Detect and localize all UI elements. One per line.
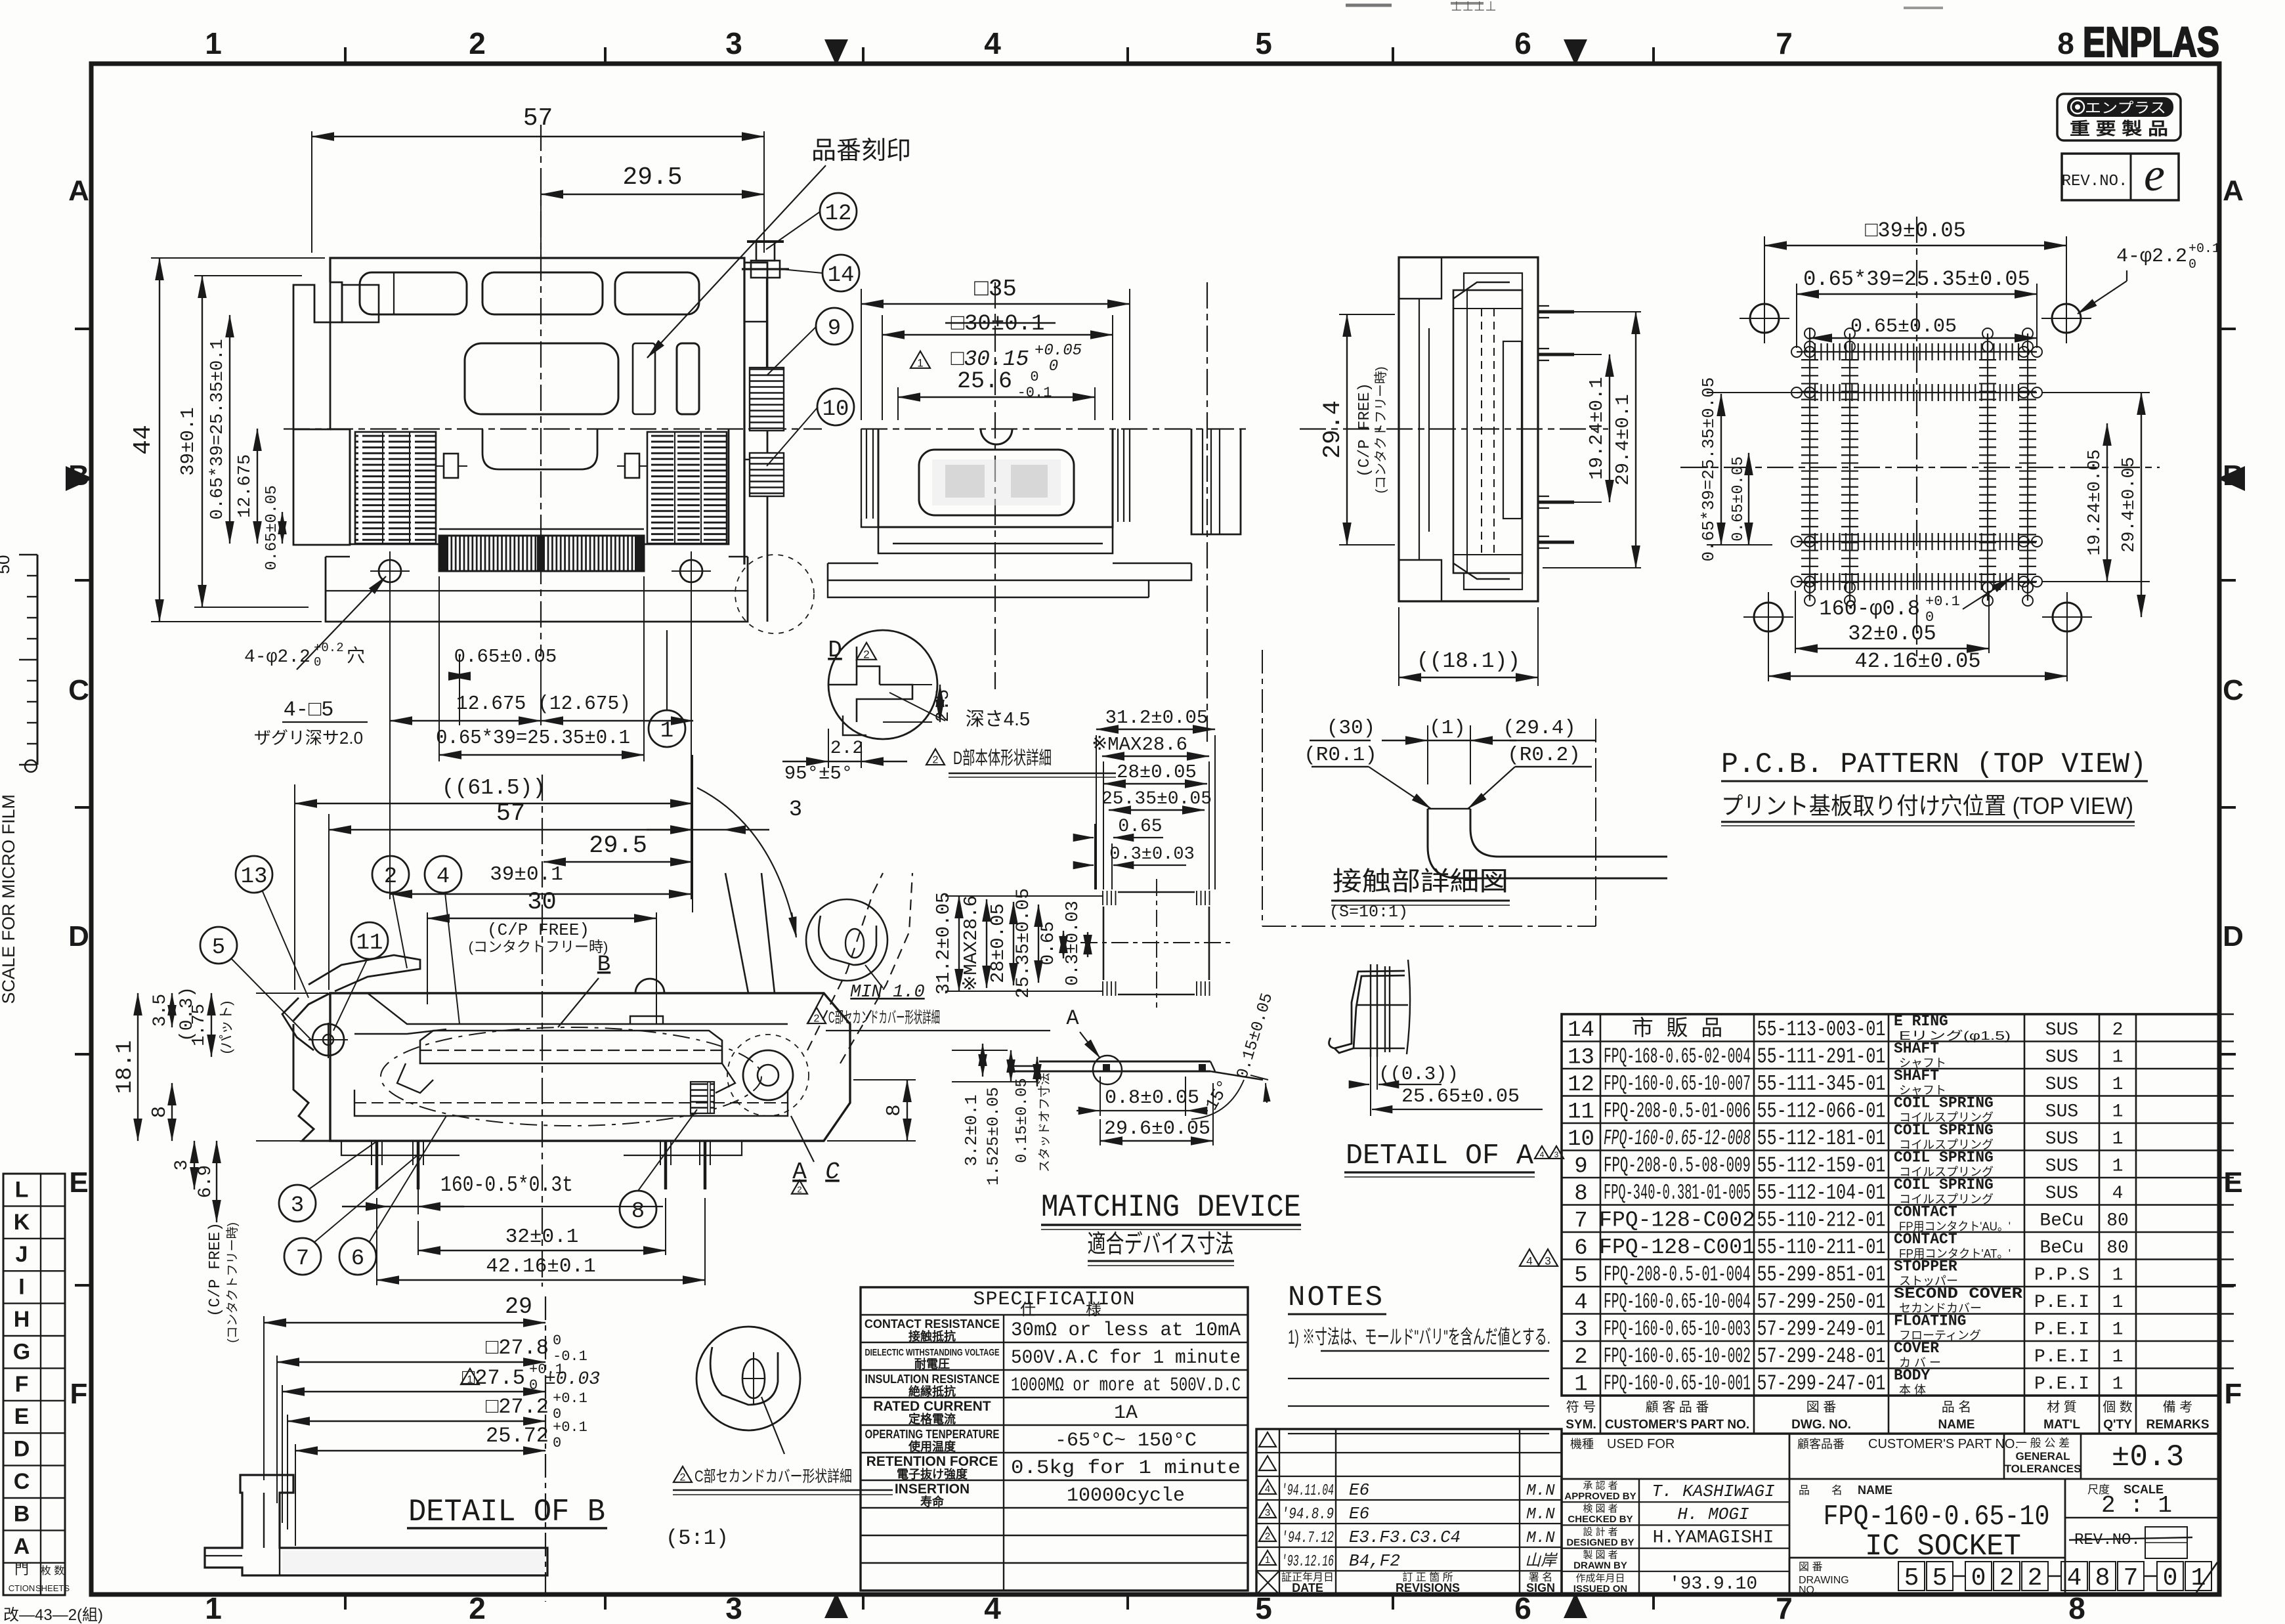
svg-text:穴: 穴: [347, 645, 365, 666]
svg-text:P.E.I: P.E.I: [2034, 1374, 2089, 1394]
svg-text:2: 2: [2028, 1564, 2043, 1592]
revisions table: [1256, 1429, 1562, 1594]
svg-text:設 計 者: 設 計 者: [1583, 1526, 1617, 1537]
svg-text:INSULATION RESISTANCE: INSULATION RESISTANCE: [865, 1373, 1000, 1386]
svg-text:6: 6: [1514, 1591, 1531, 1624]
svg-text:REVISIONS: REVISIONS: [1396, 1581, 1460, 1594]
svg-text:FPQ-128-C001: FPQ-128-C001: [1599, 1235, 1755, 1260]
svg-text:500V.A.C for 1 minute: 500V.A.C for 1 minute: [1011, 1347, 1241, 1369]
svg-text:30mΩ or less at 10mA: 30mΩ or less at 10mA: [1011, 1319, 1241, 1342]
svg-text:2: 2: [469, 1591, 486, 1624]
svg-text:FPQ-160-0.65-12-008: FPQ-160-0.65-12-008: [1604, 1126, 1751, 1151]
svg-text:BeCu: BeCu: [2039, 1238, 2083, 1258]
svg-text:0.65±0.05: 0.65±0.05: [454, 646, 557, 668]
svg-text:□39±0.05: □39±0.05: [1865, 219, 1966, 243]
svg-text:NOTES: NOTES: [1288, 1281, 1384, 1314]
svg-text:12: 12: [1568, 1073, 1594, 1098]
svg-text:深さ4.5: 深さ4.5: [966, 709, 1030, 730]
svg-text:4-φ2.2: 4-φ2.2: [244, 647, 310, 668]
svg-text:0.65: 0.65: [1038, 921, 1059, 965]
svg-text:寿命: 寿命: [920, 1495, 945, 1508]
svg-text:55-113-003-01: 55-113-003-01: [1757, 1017, 1886, 1042]
svg-text:30: 30: [527, 889, 556, 916]
svg-text:80: 80: [2106, 1238, 2129, 1258]
svg-text:55-111-345-01: 55-111-345-01: [1757, 1072, 1886, 1096]
svg-text:E RING: E RING: [1894, 1013, 1948, 1030]
svg-text:44: 44: [129, 425, 158, 455]
svg-text:材 質: 材 質: [2047, 1400, 2077, 1415]
svg-text:7: 7: [296, 1247, 309, 1271]
svg-text:25.6: 25.6: [957, 368, 1012, 395]
svg-text:B: B: [597, 952, 610, 977]
svg-text:18.1: 18.1: [113, 1040, 138, 1094]
svg-text:E: E: [2223, 1166, 2242, 1199]
svg-text:⊥⊥⊥⊥: ⊥⊥⊥⊥: [1451, 0, 1497, 14]
important-product badge: [2057, 94, 2181, 140]
svg-text:29.4: 29.4: [1319, 400, 1347, 459]
svg-text:重 要 製 品: 重 要 製 品: [2070, 119, 2168, 139]
balloons 13,2,4,5,11,3,7,6,8: [236, 856, 272, 893]
svg-text:2: 2: [797, 1185, 801, 1195]
svg-text:H: H: [14, 1307, 30, 1332]
rev.no. box: [2062, 154, 2179, 200]
svg-text:4: 4: [2067, 1564, 2082, 1592]
svg-text:P.E.I: P.E.I: [2034, 1347, 2089, 1367]
svg-text:8: 8: [1574, 1182, 1587, 1207]
svg-text:25.65±0.05: 25.65±0.05: [1401, 1086, 1520, 1108]
svg-text:名: 名: [1831, 1484, 1843, 1497]
svg-text:□27.5: □27.5: [462, 1366, 525, 1390]
svg-text:一 般 公 差: 一 般 公 差: [2016, 1437, 2070, 1449]
svg-text:SCALE FOR MICRO FILM: SCALE FOR MICRO FILM: [0, 794, 18, 1004]
svg-text:2.5: 2.5: [933, 689, 954, 722]
svg-text:2: 2: [814, 1014, 820, 1025]
svg-text:((61.5)): ((61.5)): [442, 776, 545, 800]
svg-text:P.E.I: P.E.I: [2034, 1293, 2089, 1313]
svg-text:5: 5: [1933, 1564, 1948, 1592]
svg-text:個 数: 個 数: [2103, 1400, 2133, 1415]
svg-text:耐電圧: 耐電圧: [914, 1357, 950, 1371]
svg-text:1: 1: [2112, 1101, 2124, 1122]
svg-text:GENERAL: GENERAL: [2015, 1450, 2070, 1463]
center-top view: cover-open bottom half: [994, 282, 996, 689]
svg-text:0: 0: [1030, 369, 1038, 385]
svg-text:C: C: [68, 674, 89, 706]
svg-text:3: 3: [172, 1160, 192, 1171]
svg-text:2 : 1: 2 : 1: [2101, 1492, 2172, 1519]
svg-text:(S=10:1): (S=10:1): [1329, 903, 1408, 922]
svg-text:e: e: [2144, 148, 2165, 201]
svg-text:適合デバイス寸法: 適合デバイス寸法: [1088, 1231, 1234, 1258]
svg-text:1) ※寸法は、モールド"バリ"を含んだ値とする.: 1) ※寸法は、モールド"バリ"を含んだ値とする.: [1288, 1327, 1550, 1348]
svg-text:0.15±0.05: 0.15±0.05: [1014, 1078, 1031, 1163]
svg-text:SUS: SUS: [2045, 1075, 2078, 1095]
svg-text:0.65*39=25.35±0.05: 0.65*39=25.35±0.05: [1803, 267, 2030, 291]
svg-text:作成年月日: 作成年月日: [1575, 1573, 1625, 1584]
svg-text:7: 7: [1776, 1591, 1793, 1624]
svg-text:55-112-159-01: 55-112-159-01: [1757, 1153, 1886, 1178]
svg-text:MAT'L: MAT'L: [2043, 1418, 2080, 1432]
svg-text:(R0.1): (R0.1): [1304, 744, 1377, 767]
svg-text:8: 8: [2057, 26, 2074, 60]
svg-text:(5:1): (5:1): [666, 1526, 729, 1550]
svg-text:+0.1: +0.1: [553, 1419, 587, 1436]
svg-text:STOPPER: STOPPER: [1894, 1258, 1957, 1275]
svg-text:4: 4: [1540, 1150, 1545, 1159]
svg-text:APPROVED BY: APPROVED BY: [1564, 1491, 1636, 1502]
svg-text:6: 6: [351, 1247, 364, 1271]
svg-text:SHAFT: SHAFT: [1894, 1040, 1939, 1057]
svg-text:-65°C~ 150°C: -65°C~ 150°C: [1055, 1430, 1197, 1452]
svg-text:DIELECTIC WITHSTANDING VOLTAGE: DIELECTIC WITHSTANDING VOLTAGE: [865, 1347, 1000, 1358]
svg-text:0: 0: [2163, 1564, 2178, 1592]
dim 44 / 39 left: [151, 257, 325, 259]
svg-text:REMARKS: REMARKS: [2146, 1418, 2209, 1432]
svg-text:□35: □35: [974, 276, 1017, 303]
svg-text:CUSTOMER'S PART NO.: CUSTOMER'S PART NO.: [1868, 1437, 2018, 1451]
svg-text:NO.: NO.: [1799, 1585, 1817, 1596]
svg-text:A: A: [68, 175, 89, 207]
svg-text:11: 11: [356, 931, 383, 956]
svg-text:FPQ-160-0.65-10-004: FPQ-160-0.65-10-004: [1604, 1290, 1751, 1314]
DETAIL OF B stepped profile: [545, 1296, 546, 1602]
svg-text:SPECIFICATION: SPECIFICATION: [973, 1289, 1135, 1311]
svg-text:0.3±0.03: 0.3±0.03: [1063, 901, 1083, 986]
svg-text:11: 11: [1568, 1100, 1594, 1124]
P.C.B. pattern view: [1916, 217, 1917, 656]
svg-text:3.2±0.1: 3.2±0.1: [962, 1094, 981, 1166]
svg-text:スタッドオフ寸法: スタッドオフ寸法: [1037, 1073, 1052, 1172]
svg-text:0: 0: [1049, 358, 1058, 375]
svg-text:(パット): (パット): [218, 1001, 234, 1054]
svg-text:SUS: SUS: [2045, 1156, 2078, 1176]
svg-text:39±0.1: 39±0.1: [177, 407, 199, 475]
svg-text:C部セカンドカバー形状詳細: C部セカンドカバー形状詳細: [828, 1009, 940, 1027]
svg-text:2: 2: [384, 865, 397, 889]
svg-text:57: 57: [523, 104, 553, 133]
svg-text:図 番: 図 番: [1799, 1561, 1822, 1573]
svg-text:SUS: SUS: [2045, 1101, 2078, 1122]
svg-text:SIGN: SIGN: [1526, 1581, 1555, 1594]
svg-text:2: 2: [933, 755, 939, 766]
svg-text:SHEETS: SHEETS: [35, 1583, 70, 1593]
svg-text:1.525±0.05: 1.525±0.05: [984, 1087, 1003, 1186]
svg-text:FPQ-208-0.5-01-006: FPQ-208-0.5-01-006: [1604, 1099, 1751, 1123]
svg-text:1: 1: [1265, 1554, 1270, 1566]
svg-text:4-φ2.2: 4-φ2.2: [2116, 246, 2187, 268]
svg-text:25.72: 25.72: [486, 1424, 549, 1448]
svg-text:CONTACT: CONTACT: [1894, 1231, 1957, 1248]
svg-text:COIL SPRING: COIL SPRING: [1894, 1122, 1994, 1139]
svg-text:0: 0: [1971, 1564, 1986, 1592]
svg-text:1: 1: [917, 356, 923, 369]
svg-text:0: 0: [553, 1333, 561, 1349]
svg-text:NAME: NAME: [1938, 1418, 1975, 1432]
svg-text:55-111-291-01: 55-111-291-01: [1757, 1044, 1886, 1069]
svg-text:T. KASHIWAGI: T. KASHIWAGI: [1652, 1482, 1774, 1501]
svg-text:0.65*39=25.35±0.1: 0.65*39=25.35±0.1: [208, 339, 228, 519]
svg-text:COIL SPRING: COIL SPRING: [1894, 1149, 1994, 1166]
svg-text:5: 5: [1574, 1263, 1587, 1288]
svg-text:14: 14: [828, 263, 855, 288]
svg-text:1: 1: [2112, 1293, 2124, 1313]
svg-text:DETAIL OF B: DETAIL OF B: [408, 1495, 605, 1530]
svg-text:5: 5: [212, 935, 225, 960]
svg-text:9: 9: [1574, 1154, 1587, 1179]
svg-text:CTION: CTION: [9, 1583, 35, 1593]
svg-text:品番刻印: 品番刻印: [811, 137, 911, 165]
svg-text:57: 57: [496, 800, 525, 828]
svg-text:2: 2: [680, 1472, 686, 1484]
svg-text:'93.9.10: '93.9.10: [1669, 1574, 1757, 1594]
svg-text:仕: 仕: [1020, 1301, 1036, 1319]
svg-text:K: K: [14, 1210, 30, 1235]
svg-text:4-□5: 4-□5: [284, 698, 334, 722]
svg-text:SUS: SUS: [2045, 1047, 2078, 1067]
svg-text:1000MΩ or more at 500V.D.C: 1000MΩ or more at 500V.D.C: [1011, 1375, 1241, 1397]
svg-text:1: 1: [1574, 1372, 1587, 1397]
svg-text:2: 2: [469, 26, 486, 60]
svg-text:(30): (30): [1327, 717, 1375, 740]
svg-text:CHECKED BY: CHECKED BY: [1568, 1514, 1633, 1525]
svg-text:C: C: [14, 1469, 30, 1494]
svg-text:SUS: SUS: [2045, 1129, 2078, 1149]
svg-text:160-φ0.8: 160-φ0.8: [1819, 597, 1920, 621]
svg-text:55-110-212-01: 55-110-212-01: [1757, 1208, 1886, 1232]
svg-text:±0.03: ±0.03: [545, 1369, 600, 1390]
svg-text:±0.3: ±0.3: [2112, 1440, 2184, 1474]
svg-text:4: 4: [984, 1591, 1001, 1624]
svg-text:1: 1: [2112, 1319, 2124, 1340]
svg-text:4: 4: [437, 865, 450, 889]
svg-text:□30±0.1: □30±0.1: [951, 312, 1045, 337]
svg-text:28±0.05: 28±0.05: [987, 903, 1009, 983]
svg-text:承 認 者: 承 認 者: [1583, 1480, 1617, 1491]
svg-text:55-112-104-01: 55-112-104-01: [1757, 1181, 1886, 1205]
svg-text:7: 7: [1776, 26, 1793, 60]
svg-text:29.5: 29.5: [589, 832, 647, 860]
svg-text:FPQ-160-0.65-10-002: FPQ-160-0.65-10-002: [1604, 1344, 1751, 1369]
svg-text:29.6±0.05: 29.6±0.05: [1104, 1118, 1210, 1140]
svg-text:D部本体形状詳細: D部本体形状詳細: [953, 748, 1052, 768]
svg-text:D: D: [14, 1437, 30, 1462]
svg-text:2: 2: [1999, 1564, 2015, 1592]
svg-text:39±0.1: 39±0.1: [490, 863, 563, 886]
svg-text:P.C.B. PATTERN (TOP VIEW): P.C.B. PATTERN (TOP VIEW): [1721, 748, 2146, 781]
svg-text:DWG. NO.: DWG. NO.: [1791, 1418, 1851, 1432]
svg-text:MATCHING DEVICE: MATCHING DEVICE: [1041, 1190, 1301, 1226]
svg-text:57-299-248-01: 57-299-248-01: [1757, 1344, 1886, 1369]
svg-text:32±0.1: 32±0.1: [505, 1226, 579, 1249]
svg-text:COIL SPRING: COIL SPRING: [1894, 1094, 1994, 1111]
svg-text:6: 6: [1514, 26, 1531, 60]
svg-text:E: E: [14, 1404, 30, 1429]
svg-text:((0.3)): ((0.3)): [1378, 1063, 1459, 1085]
svg-text:INSERTION: INSERTION: [895, 1482, 970, 1497]
svg-text:FPQ-160-0.65-10-001: FPQ-160-0.65-10-001: [1604, 1371, 1751, 1396]
svg-text:13: 13: [1568, 1045, 1594, 1070]
svg-text:7: 7: [1574, 1208, 1587, 1233]
svg-text:1.75: 1.75: [190, 1004, 209, 1046]
svg-text:1: 1: [2112, 1156, 2124, 1176]
svg-text:SYM.: SYM.: [1566, 1418, 1596, 1432]
svg-text:A: A: [14, 1534, 30, 1559]
svg-text:(C/P FREE): (C/P FREE): [487, 920, 589, 940]
svg-text:C: C: [825, 1159, 840, 1186]
svg-text:6.9: 6.9: [196, 1165, 216, 1198]
svg-text:+0.1: +0.1: [553, 1390, 587, 1407]
svg-text:F: F: [2225, 1378, 2242, 1410]
svg-text:57-299-250-01: 57-299-250-01: [1757, 1290, 1886, 1314]
leader balloons 12,14,9,10: [766, 211, 821, 249]
svg-text:3.5: 3.5: [150, 994, 171, 1027]
detail D circle: [828, 630, 937, 739]
svg-text:+0.05: +0.05: [1035, 342, 1082, 360]
svg-text:FPQ-160-0.65-10-007: FPQ-160-0.65-10-007: [1604, 1072, 1751, 1096]
svg-text:0.65±0.05: 0.65±0.05: [1850, 316, 1957, 338]
svg-text:SHAFT: SHAFT: [1894, 1067, 1939, 1084]
svg-text:DESIGNED BY: DESIGNED BY: [1566, 1537, 1634, 1548]
svg-text:F: F: [70, 1378, 88, 1410]
svg-text:E: E: [69, 1166, 88, 1199]
svg-text:1: 1: [2112, 1047, 2124, 1067]
svg-text:枚 数: 枚 数: [41, 1565, 64, 1577]
svg-text:80: 80: [2106, 1210, 2129, 1231]
svg-text:接触部詳細図: 接触部詳細図: [1333, 867, 1508, 896]
svg-text:42.16±0.05: 42.16±0.05: [1854, 649, 1980, 673]
svg-text:□27.8: □27.8: [486, 1336, 549, 1360]
svg-text:E6: E6: [1349, 1480, 1369, 1500]
svg-text:+0.1: +0.1: [2189, 242, 2220, 257]
svg-text:29.4±0.05: 29.4±0.05: [2120, 457, 2139, 553]
svg-text:ISSUED ON: ISSUED ON: [1573, 1583, 1628, 1594]
svg-text:12.675 (12.675): 12.675 (12.675): [456, 693, 631, 716]
svg-text:USED FOR: USED FOR: [1607, 1437, 1675, 1451]
svg-text:(C/P FREE): (C/P FREE): [207, 1222, 224, 1317]
svg-text:A: A: [1066, 1006, 1079, 1031]
svg-text:SECOND COVER: SECOND COVER: [1894, 1285, 2022, 1302]
svg-text:((18.1)): ((18.1)): [1417, 649, 1520, 673]
svg-text:接触抵抗: 接触抵抗: [908, 1329, 956, 1343]
svg-text:□27.2: □27.2: [486, 1395, 549, 1419]
svg-text:CUSTOMER'S PART NO.: CUSTOMER'S PART NO.: [1605, 1418, 1749, 1432]
left margin microfilm ruler: [37, 555, 39, 765]
svg-text:0.65*39=25.35±0.05: 0.65*39=25.35±0.05: [1699, 377, 1719, 562]
svg-text:160-0.5*0.3t: 160-0.5*0.3t: [440, 1173, 573, 1197]
svg-text:3: 3: [1265, 1507, 1270, 1518]
svg-text:E6: E6: [1349, 1504, 1369, 1524]
svg-text:H. MOGI: H. MOGI: [1677, 1505, 1749, 1524]
svg-text:0: 0: [553, 1435, 561, 1451]
svg-text:電子抜け強度: 電子抜け強度: [897, 1467, 968, 1481]
svg-text:RATED CURRENT: RATED CURRENT: [873, 1399, 991, 1414]
svg-text:COIL SPRING: COIL SPRING: [1894, 1176, 1994, 1193]
svg-text:DETAIL OF A: DETAIL OF A: [1346, 1140, 1534, 1172]
DETAIL OF A lead profile: [1008, 1071, 1210, 1073]
svg-text:B: B: [14, 1501, 30, 1526]
svg-text:3: 3: [1545, 1254, 1550, 1267]
svg-text:M.N: M.N: [1526, 1529, 1555, 1547]
svg-text:95°±5°: 95°±5°: [784, 763, 853, 784]
svg-text:55-112-066-01: 55-112-066-01: [1757, 1099, 1886, 1123]
svg-text:改—43—2(組): 改—43—2(組): [3, 1606, 103, 1624]
svg-text:13: 13: [241, 865, 268, 889]
svg-text:5: 5: [1904, 1564, 1919, 1592]
svg-text:BeCu: BeCu: [2039, 1210, 2083, 1231]
svg-text:0.65*39=25.35±0.1: 0.65*39=25.35±0.1: [436, 727, 630, 750]
svg-text:様: 様: [1086, 1301, 1101, 1319]
detail C circle (keyhole): [806, 899, 887, 981]
svg-text:42.16±0.1: 42.16±0.1: [486, 1255, 595, 1278]
bent contact + 25.65 detail: [1329, 971, 1405, 1048]
svg-text:I: I: [18, 1275, 24, 1300]
svg-text:機種: 機種: [1570, 1438, 1594, 1451]
svg-text:顧 客 品 番: 顧 客 品 番: [1646, 1400, 1709, 1415]
parts list table: [1562, 1014, 2219, 1396]
svg-text:(C/P FREE): (C/P FREE): [1356, 383, 1374, 477]
svg-text:CONTACT: CONTACT: [1894, 1203, 1957, 1220]
svg-text:COVER: COVER: [1894, 1340, 1939, 1357]
svg-text:FPQ-340-0.381-01-005: FPQ-340-0.381-01-005: [1604, 1181, 1751, 1205]
svg-text:57-299-249-01: 57-299-249-01: [1757, 1317, 1886, 1341]
svg-text:品 名: 品 名: [1942, 1400, 1972, 1415]
svg-text:D: D: [68, 920, 89, 952]
svg-text:0.8±0.05: 0.8±0.05: [1105, 1087, 1199, 1109]
svg-text:4: 4: [2112, 1184, 2124, 1204]
svg-text:2: 2: [2112, 1020, 2124, 1040]
second-cover C detail circle: [696, 1327, 800, 1430]
svg-text:28±0.05: 28±0.05: [1117, 761, 1197, 783]
svg-text:市 販 品: 市 販 品: [1632, 1016, 1723, 1042]
svg-text:J: J: [16, 1242, 28, 1267]
svg-text:3: 3: [725, 26, 742, 60]
svg-text:2: 2: [863, 648, 869, 660]
svg-text:8: 8: [2068, 1591, 2085, 1624]
svg-text:9: 9: [828, 316, 841, 341]
svg-text:0.3±0.03: 0.3±0.03: [1109, 845, 1195, 865]
svg-text:3: 3: [1554, 1150, 1559, 1159]
svg-text:B: B: [68, 459, 89, 492]
svg-text:RETENTION FORCE: RETENTION FORCE: [866, 1454, 998, 1469]
svg-text:DATE: DATE: [1292, 1581, 1323, 1594]
svg-text:0.65: 0.65: [1118, 817, 1162, 837]
svg-text:(29.4): (29.4): [1503, 717, 1576, 740]
svg-text:SUS: SUS: [2045, 1020, 2078, 1040]
svg-text:DRAWN BY: DRAWN BY: [1573, 1560, 1627, 1571]
svg-text:本 体: 本 体: [1899, 1383, 1926, 1396]
svg-text:定格電流: 定格電流: [908, 1412, 956, 1426]
svg-text:2: 2: [1574, 1345, 1587, 1370]
svg-text:32±0.05: 32±0.05: [1848, 622, 1936, 646]
svg-text:1: 1: [205, 26, 222, 60]
right section view (side): [1300, 428, 1608, 429]
svg-text:(1): (1): [1429, 717, 1466, 740]
svg-text:29.5: 29.5: [622, 163, 682, 192]
svg-text:31.2±0.05: 31.2±0.05: [1105, 707, 1208, 729]
svg-text:M.N: M.N: [1526, 1506, 1555, 1524]
svg-text:1: 1: [2112, 1129, 2124, 1149]
svg-text:CONTACT RESISTANCE: CONTACT RESISTANCE: [865, 1317, 1000, 1331]
svg-text:エンプラス: エンプラス: [2085, 100, 2166, 116]
svg-text:29: 29: [505, 1294, 532, 1320]
svg-text:山岸: 山岸: [1525, 1552, 1558, 1570]
microfilm zone index table: [3, 1174, 65, 1595]
svg-text:14: 14: [1568, 1018, 1594, 1043]
svg-text:10000cycle: 10000cycle: [1067, 1485, 1185, 1507]
svg-text:(コンタクトフリー時): (コンタクトフリー時): [225, 1222, 240, 1343]
svg-text:4: 4: [1265, 1484, 1270, 1495]
section body outline: [330, 993, 850, 1141]
